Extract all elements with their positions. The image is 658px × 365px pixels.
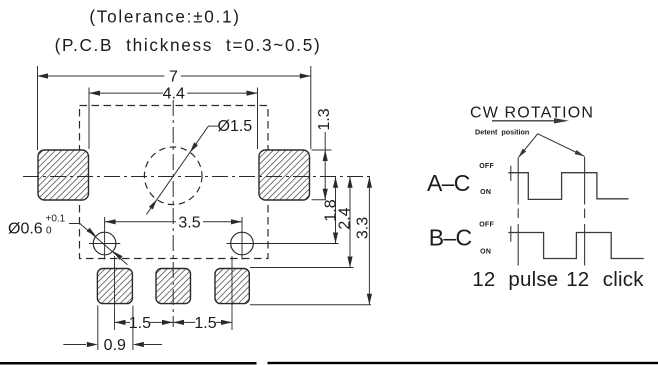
svg-text:(Tolerance:±0.1): (Tolerance:±0.1) [89,7,240,27]
right hole center marks (horizontal extends to 1.8 dim) [227,227,339,260]
right hole circle Q0.6 [231,232,254,255]
left side pad (hatched) [38,150,89,200]
svg-text:B–C: B–C [429,225,472,251]
svg-text:OFF: OFF [479,222,494,229]
svg-text:+0.1: +0.1 [46,214,66,225]
svg-text:ON: ON [480,189,491,196]
bottom pad 2 (hatched) [156,269,191,304]
svg-text:1.5: 1.5 [194,315,216,332]
dimensions 1.5 1.5 (pad pitch) [115,315,233,332]
component body outline (dashed) [80,106,269,259]
svg-text:CW ROTATION: CW ROTATION [470,105,594,122]
svg-text:2.4: 2.4 [337,207,354,229]
dimension 1.8 (from centerline) [322,177,339,244]
horizontal centerline [23,176,371,178]
CW rotation arrow [492,118,569,123]
svg-text:Detent position: Detent position [475,128,529,137]
extension line pads-top (for 2.4) [250,267,354,269]
svg-text:click: click [603,268,644,291]
waveform B-C [508,233,644,259]
dimension 4.4 (inner pad spacing) [89,86,258,149]
bottom border rule left [0,362,257,365]
svg-text:OFF: OFF [479,163,494,170]
dimension 3.3 (from centerline) [355,177,373,305]
svg-text:Ø0.6: Ø0.6 [8,221,43,238]
bottom pad 3 (hatched) [215,269,249,304]
dimension 3.5 (hole spacing) [105,214,242,231]
left hole center marks [89,227,120,260]
svg-text:12: 12 [472,268,495,291]
dimension 7 (overall width) [37,66,311,150]
waveform A-C start tick [510,166,512,181]
vertical centerline [172,100,174,327]
svg-text:3.3: 3.3 [355,217,372,239]
detent line left [517,158,519,266]
svg-text:Ø1.5: Ø1.5 [218,118,253,135]
extension line pads-bottom (for 3.3) [250,304,371,306]
right side pad (hatched) [259,150,310,200]
svg-text:3.5: 3.5 [178,214,200,231]
left hole circle Q0.6 [93,232,116,255]
waveform B-C start tick [510,226,512,242]
detent position pointers [518,134,584,158]
svg-text:1.5: 1.5 [129,315,151,332]
dimension diameter 0.6 +0.1/0 leader [8,214,128,265]
svg-text:(P.C.B thickness t=0.3~0.5): (P.C.B thickness t=0.3~0.5) [55,35,322,55]
waveform A-C [508,173,628,200]
svg-text:7: 7 [169,69,178,86]
svg-text:4.4: 4.4 [163,86,185,103]
bottom pad 1 (hatched) [97,269,132,304]
svg-text:0: 0 [46,226,52,237]
bottom pad 3 centerline [231,256,233,330]
bottom border rule right [268,362,658,364]
dimension diameter 1.5 leader [147,118,253,214]
dimension 1.3 (side pad height) [312,108,334,200]
svg-text:12: 12 [566,268,589,291]
svg-text:A–C: A–C [427,170,470,196]
svg-text:ON: ON [480,249,491,256]
dimension 2.4 (from centerline) [337,177,354,268]
center hole circle (dashed) Q1.5 [144,147,202,205]
dimension 0.9 (pad width) [63,306,162,355]
svg-text:1.3: 1.3 [316,108,333,130]
detent line right [584,157,586,266]
svg-text:pulse: pulse [508,268,558,291]
svg-text:0.9: 0.9 [104,337,126,354]
bottom pad 1 centerline [114,256,116,330]
